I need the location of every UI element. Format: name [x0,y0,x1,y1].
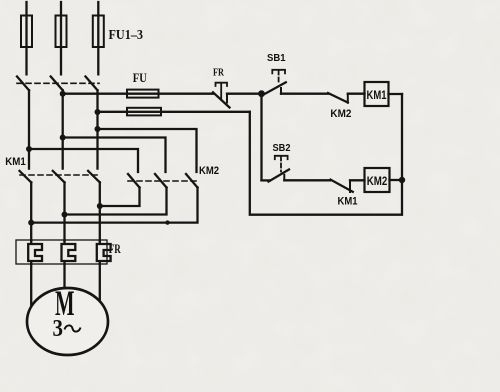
svg-text:FR: FR [109,241,121,256]
button SB2 actuator [275,156,288,159]
wire L2 to KM2 pole 2 [63,138,166,173]
svg-text:SB2: SB2 [273,143,292,154]
button SB2 stem dashed [280,157,282,172]
wire L2 top [60,2,62,74]
contactor KM2 pole 1 blade [128,174,140,188]
wire coil KM2 to rail [390,179,403,181]
wire L1 mid [28,90,30,168]
wire L3 lower [99,182,101,241]
svg-text:FR: FR [213,68,224,79]
switch QS linkage dashed [17,82,99,84]
wire coil KM1 to rail [389,93,403,95]
wire L3 mid [96,90,98,168]
switch QS pole 2 blade [51,77,63,91]
wire L3 top [97,2,99,74]
FR heater element 3 [97,241,111,264]
node SB branch [258,90,265,97]
label motor phase tilde [65,325,81,331]
coil KM2 box [365,168,390,192]
node L3 feed [95,126,101,132]
wire KM2 pole1 out to L3 [100,188,140,207]
svg-text:SB1: SB1 [267,53,286,64]
svg-text:KM1: KM1 [5,156,26,168]
wire right rail [250,94,402,215]
coil KM1 box [365,82,389,106]
node crossing dot [165,220,169,224]
node KM2p3/L1 [28,220,34,226]
motor M circle [27,288,108,355]
button SB2 blade [269,170,290,182]
wire KM2 pole2 out to L2 [65,188,167,215]
wire L2 mid [62,90,64,168]
contact KM2 NC blade [328,93,348,103]
FR contact wire right [227,93,262,95]
wire L1 lower [30,182,32,241]
button SB2 fixed tick [283,175,285,181]
contactor KM1 linkage dashed [20,174,98,176]
svg-text:3: 3 [53,316,64,342]
node L1 feed [26,146,32,152]
fuse FU lower [127,108,161,116]
contact KM1 NC blade [331,180,353,192]
wire L3 to KM2 pole 3 [98,129,197,172]
contactor KM2 linkage dashed [128,180,197,182]
fuse FU2 (L2) [56,16,67,48]
node KM2p1/L3 [97,203,103,209]
wire SB2 to KM1 NC [284,179,330,181]
svg-text:KM1: KM1 [367,88,387,102]
contactor KM2 pole 2 blade [155,174,167,188]
svg-text:KM2: KM2 [199,165,219,177]
contactor KM2 pole 3 blade [186,174,198,188]
button SB2 stub [262,179,271,181]
wire KM2 pole3 out to L1 [31,188,197,223]
switch QS pole 3 blade [86,77,98,91]
svg-text:FU1–3: FU1–3 [109,28,144,43]
button SB1 stem dashed [278,71,280,84]
wire L1 to KM2 pole 1 [29,149,138,172]
fuse FU1 (L1) [21,16,32,48]
button SB1 actuator [272,70,285,74]
button SB1 fixed tick [280,88,282,94]
fuse FU3 (L3) [93,16,104,48]
svg-text:KM2: KM2 [330,108,351,120]
wire L2 to control fuse FU [63,93,214,95]
contact KM2 NC tick [347,94,349,103]
node KM2p2/L2 [62,212,68,218]
wire KM1NC to coil [350,179,365,181]
FR contact actuator [216,83,228,99]
contact KM1 NC tick [349,181,351,192]
svg-text:KM1: KM1 [338,196,358,208]
contactor KM1 pole 2 blade [53,171,65,183]
wire branch down to SB2 [260,94,262,181]
wire SB1 to KM2 NC [281,93,329,95]
FR contact fixed tick [226,94,228,103]
svg-text:KM2: KM2 [367,174,388,188]
FR contact (control) blade [213,92,230,107]
wire to motor 1 [30,264,32,310]
wire L3 to control fuse FU lower [98,111,250,113]
node L2/control junction [60,91,66,97]
wire L2 lower [63,182,65,241]
wire to motor 3 [99,264,101,306]
node L2 feed [60,135,66,141]
thermal relay FR box [16,240,107,264]
wire L1 top [25,2,27,74]
wire KM2NC to coil [348,93,365,95]
wire to motor 2 [63,264,65,292]
contactor KM1 pole 1 blade [20,171,32,183]
node rail junction [399,177,405,183]
fuse FU upper [127,90,159,98]
FR heater element 2 [62,241,76,264]
switch QS pole 1 blade [17,77,29,91]
FR heater element 1 [28,241,42,264]
contactor KM1 pole 3 blade [88,171,100,183]
button SB1 blade [264,82,286,94]
svg-text:FU: FU [133,70,147,85]
node L3/control junction [95,109,101,115]
